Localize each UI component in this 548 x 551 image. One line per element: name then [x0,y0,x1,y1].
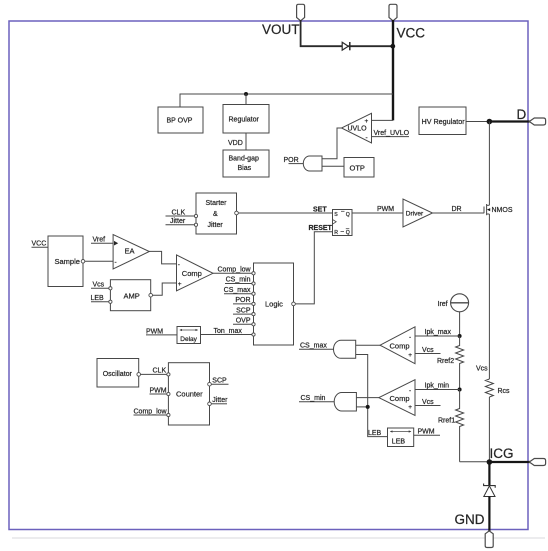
svg-text:VCC: VCC [32,241,47,248]
pin ICG [529,459,545,466]
wire UVLO minus input Vref_UVLO [372,136,410,138]
wire OTP to gate [322,165,344,167]
svg-text:UVLO: UVLO [348,126,368,133]
wire EA output to Comp [149,251,177,264]
wire CS_min gate bottom input [356,406,367,408]
pin D [529,118,545,125]
wire Comp to CS_max gate top input [356,344,380,346]
svg-text:-: - [178,261,180,268]
diode D1 [342,42,350,50]
svg-text:Jitter: Jitter [208,222,224,229]
wire SCP stub [211,383,228,385]
svg-text:CS_max: CS_max [300,343,327,350]
svg-text:POR: POR [284,157,299,164]
svg-text:-: - [409,388,411,395]
svg-text:LEB: LEB [392,438,406,445]
svg-text:VCC: VCC [397,26,426,41]
wire PWM from LEB block [414,434,440,436]
pin GND [485,531,493,548]
wire VDD [245,133,247,150]
transistor NMOS [484,204,513,215]
svg-text:HV Regulator: HV Regulator [422,117,466,126]
svg-text:Vcs: Vcs [93,282,105,289]
wire Delay to Logic Ton_max [201,334,252,336]
wire Comp_low stub into Counter [134,414,167,416]
svg-text:Vcs: Vcs [422,347,434,354]
wire bus to BP OVP [179,94,181,108]
svg-text:CS_max: CS_max [224,287,251,294]
svg-text:Regulator: Regulator [229,117,260,124]
op-amp UVLO comparator [342,113,372,143]
wire CS_max stub [224,293,252,295]
svg-text:NMOS: NMOS [492,207,513,214]
wire Jitter stub [211,403,227,405]
svg-text:Jitter: Jitter [212,397,228,404]
wire Sample to EA [85,260,113,262]
svg-text:OTP: OTP [350,164,365,173]
pin VCC [389,4,425,40]
svg-text:Band-gap: Band-gap [229,156,259,163]
flip-flop U1 SR latch [333,210,353,236]
svg-text:Ipk_max: Ipk_max [425,329,452,336]
svg-text:-: - [115,259,117,266]
svg-text:CLK: CLK [153,368,167,375]
wire RESET from Logic to flip-flop [295,232,332,304]
Logic block [252,263,295,345]
wire diode to VCC net [348,45,393,47]
Starter and Jitter block [194,193,238,234]
wire OVP stub [233,323,252,325]
wire POR output [289,163,304,165]
current source Iref [438,294,469,312]
Regulator block [223,105,269,134]
wire Ipk_min to Comp [415,389,460,391]
wire VOUT pin to diode [301,20,343,46]
op-amp Comp PWM comparator [177,255,214,291]
Band-gap Bias block [223,150,269,177]
svg-text:VDD: VDD [228,140,243,147]
svg-text:Vcs: Vcs [476,366,488,373]
wire AMP output to Comp [153,283,177,295]
svg-text:Sample: Sample [55,257,80,266]
svg-text:+: + [365,118,369,125]
svg-text:+: + [178,281,182,288]
wire CS_max gate output [299,348,334,350]
wire POR stub [233,303,252,305]
svg-text:CS_min: CS_min [226,277,251,284]
OTP block [344,158,374,178]
svg-text:Q: Q [346,212,350,218]
wire bus to Regulator [245,94,247,105]
LEB block [388,428,414,447]
wire CLK Oscillator to Counter [141,373,167,375]
svg-text:VOUT: VOUT [262,22,300,37]
svg-text:-: - [366,135,368,142]
AMP block [109,280,153,311]
wire CS_min stub [225,283,252,285]
svg-text:Rref2: Rref2 [437,358,454,365]
wire Ipk_max to Comp [415,335,460,337]
svg-text:R: R [334,230,338,236]
wire CS_max gate bottom input [356,355,388,437]
svg-text:EA: EA [125,247,135,256]
svg-text:Counter: Counter [176,390,203,399]
wire Rref1 to ICG node [460,461,490,463]
svg-text:CS_min: CS_min [301,395,326,402]
svg-text:ICG: ICG [490,446,514,461]
wire Comp to CS_min gate top input [356,397,378,399]
wire D node to D pin (thick) [489,120,529,122]
wire SET Starter to flip-flop [238,212,332,214]
node LEB line junction [366,405,370,409]
svg-text:Driver: Driver [406,210,424,217]
node D junction [487,119,493,125]
gate POR AND [303,156,322,171]
wire ICG node to ICG pin (thick) [489,461,530,463]
wire VCC into Sample [32,246,49,248]
HV Regulator block [419,107,466,135]
op-amp Comp peak-max comparator [380,327,415,364]
svg-text:AMP: AMP [124,291,140,300]
svg-text:Bias: Bias [238,165,252,172]
svg-text:-: - [409,334,411,341]
svg-text:Comp_low: Comp_low [218,267,252,274]
svg-text:Vcs: Vcs [422,399,434,406]
svg-text:Oscillator: Oscillator [103,371,133,378]
svg-text:Ton_max: Ton_max [214,328,243,335]
wire SCP stub [233,313,252,315]
wire LEB into AMP [91,301,109,303]
svg-text:Iref: Iref [438,301,448,308]
svg-text:Ipk_min: Ipk_min [425,383,450,390]
Delay block [177,327,201,344]
svg-text:Rcs: Rcs [498,388,511,395]
wire Vcs into Comp plus (min) [415,405,441,407]
resistor Rcs [485,379,510,397]
wire CS_min gate output [299,401,334,403]
svg-text:+: + [408,404,412,411]
node bus-Regulator junction [244,92,248,96]
op-amp EA error amplifier [113,235,149,270]
svg-text:Jitter: Jitter [170,218,186,225]
svg-text:+: + [408,352,412,359]
resistor Rref2 [437,336,464,390]
wire diode to GND pin (thick) [488,497,490,532]
wire Vcs into Comp plus [415,353,441,355]
svg-text:OVP: OVP [236,318,251,325]
wire CLK into Starter [166,215,195,217]
diode D2 zener [484,484,496,497]
wire HV Regulator to D node [466,121,489,123]
wire Iref to Ipk_max node [459,312,461,336]
bottom shadow line [12,537,545,539]
wire Vcs into AMP [91,287,109,289]
wire PWM flip-flop to Driver [352,212,403,214]
node Ipk_min junction [458,388,462,392]
wire right rail Rcs to ICG node [488,397,490,462]
svg-text:LEB: LEB [368,430,382,437]
svg-text:SET: SET [313,206,327,213]
svg-text:Logic: Logic [265,300,283,309]
gate CS_max AND [334,340,356,358]
gate CS_min AND [334,393,356,412]
svg-text:SCP: SCP [236,307,251,314]
wire UVLO output to POR gate [322,128,342,159]
BP OVP block [158,107,203,133]
node ICG junction [487,459,493,465]
svg-text:D: D [517,107,527,122]
svg-text:Rref1: Rref1 [438,418,455,425]
resistor Rref1 [438,390,464,462]
svg-text:GND: GND [455,512,485,527]
svg-text:&: & [213,211,218,218]
pin VOUT [262,4,305,37]
wire Jitter into Starter [166,224,195,226]
wire Comp_low Comp to Logic [213,272,252,274]
wire top bus [180,93,393,95]
svg-text:LEB: LEB [91,295,105,302]
svg-text:CLK: CLK [172,209,186,216]
wire UVLO plus input to VCC [372,119,394,121]
wire PWM into Delay [146,334,177,336]
wire right rail D to NMOS drain [488,122,490,206]
svg-text:Comp: Comp [390,394,410,403]
svg-text:PWM: PWM [377,206,394,213]
op-amp Comp peak-min comparator [379,380,415,416]
node Ipk_max junction [458,334,462,338]
svg-text:Comp: Comp [182,269,202,278]
svg-text:DR: DR [452,206,462,213]
Sample block [48,236,85,287]
svg-text:PWM: PWM [418,429,435,436]
svg-text:SCP: SCP [212,378,227,385]
svg-text:Vref: Vref [93,236,106,243]
svg-text:POR: POR [235,297,250,304]
wire PWM stub into Counter [150,393,167,395]
svg-text:Q: Q [346,230,350,236]
op-amp Driver buffer [403,199,433,227]
wire Driver to NMOS gate [433,212,485,214]
svg-text:RESET: RESET [309,225,333,232]
wire right rail NMOS source to Rcs [488,214,490,379]
svg-text:PWM: PWM [150,387,167,394]
svg-text:S: S [334,212,338,218]
wire VCC vertical (thick) [392,20,394,120]
svg-text:Vref_UVLO: Vref_UVLO [374,130,410,137]
svg-text:Comp_low: Comp_low [134,408,168,415]
wire Vref into EA [91,242,113,244]
svg-text:Delay: Delay [180,336,197,343]
node VCC-VOUT junction [390,44,395,49]
Counter block [167,363,212,425]
svg-text:BP OVP: BP OVP [167,118,193,125]
svg-text:Starter: Starter [206,200,228,207]
svg-text:Comp: Comp [390,341,410,350]
Oscillator block [97,359,141,388]
wire ICG node to diode (thick) [488,462,490,486]
